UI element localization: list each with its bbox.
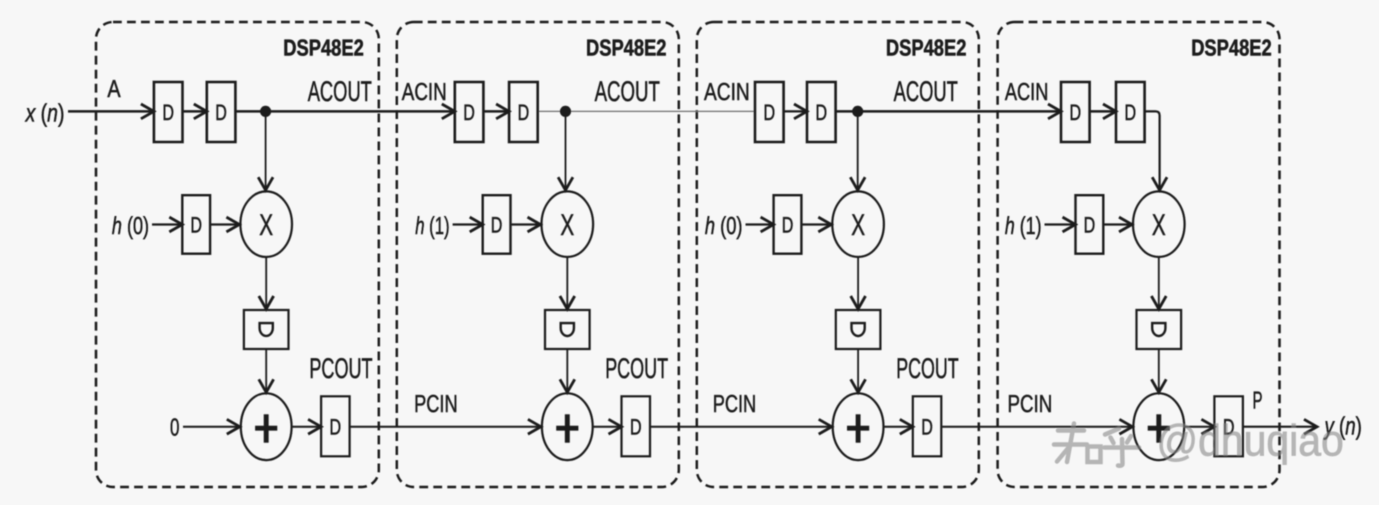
- svg-text:PCIN: PCIN: [1008, 391, 1053, 418]
- svg-text:h (0): h (0): [705, 213, 743, 240]
- svg-text:DSP48E2: DSP48E2: [283, 34, 364, 60]
- svg-text:@dhuqiao: @dhuqiao: [1157, 417, 1344, 466]
- svg-text:ACOUT: ACOUT: [894, 76, 958, 108]
- svg-text:D: D: [1084, 212, 1096, 237]
- svg-text:X: X: [259, 209, 273, 242]
- svg-text:ACOUT: ACOUT: [595, 76, 660, 108]
- svg-text:D: D: [782, 212, 794, 237]
- svg-text:PCIN: PCIN: [414, 391, 458, 418]
- svg-text:X: X: [851, 209, 865, 242]
- svg-text:PCOUT: PCOUT: [896, 353, 958, 385]
- svg-text:D: D: [921, 414, 933, 439]
- svg-text:PCOUT: PCOUT: [605, 353, 668, 385]
- svg-text:ACIN: ACIN: [1005, 79, 1049, 106]
- svg-text:DSP48E2: DSP48E2: [886, 34, 967, 60]
- svg-text:D: D: [518, 100, 530, 125]
- svg-text:P: P: [1253, 388, 1263, 415]
- svg-text:D: D: [162, 100, 174, 125]
- svg-text:A: A: [107, 76, 121, 103]
- svg-text:ACOUT: ACOUT: [308, 76, 372, 108]
- svg-text:ACIN: ACIN: [402, 79, 447, 106]
- svg-text:D: D: [491, 212, 503, 237]
- svg-text:D: D: [190, 212, 202, 237]
- svg-text:D: D: [1125, 100, 1137, 125]
- svg-text:PCOUT: PCOUT: [309, 353, 372, 385]
- svg-text:X: X: [560, 209, 574, 242]
- svg-text:D: D: [764, 100, 776, 125]
- svg-text:X: X: [1152, 209, 1166, 242]
- svg-text:DSP48E2: DSP48E2: [586, 34, 667, 60]
- svg-text:ACIN: ACIN: [704, 79, 750, 106]
- svg-text:D: D: [630, 414, 642, 439]
- svg-text:x (n): x (n): [25, 100, 65, 128]
- svg-text:D: D: [1070, 100, 1082, 125]
- svg-text:D: D: [330, 414, 342, 439]
- svg-text:PCIN: PCIN: [713, 391, 757, 418]
- svg-text:D: D: [816, 100, 828, 125]
- svg-text:DSP48E2: DSP48E2: [1191, 34, 1272, 60]
- svg-text:0: 0: [170, 415, 179, 442]
- svg-text:h (1): h (1): [1005, 213, 1042, 240]
- svg-text:h (0): h (0): [112, 213, 149, 240]
- svg-text:D: D: [463, 100, 475, 125]
- svg-text:D: D: [215, 100, 227, 125]
- svg-text:h (1): h (1): [415, 213, 449, 240]
